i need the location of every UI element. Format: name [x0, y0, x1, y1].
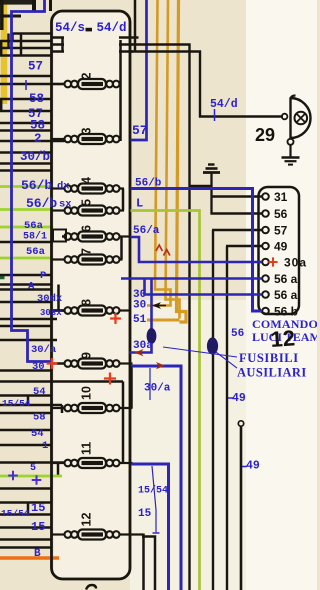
bus jog fuse8 feed [57, 285, 60, 311]
blue wire 56b drop to terminal [253, 187, 263, 311]
blue wire 57 from top to fuse3 [131, 0, 147, 140]
red arrow up orange 2 [164, 250, 170, 256]
bus edge vertical ticks [0, 41, 2, 56]
red arrow on blue 30/a wire [156, 362, 165, 369]
svg-text:30a: 30a [284, 256, 307, 270]
terminal 56 pin [262, 210, 269, 217]
svg-text:30/b: 30/b [20, 150, 50, 164]
bus wire row y=488.5 [0, 487, 52, 490]
svg-text:3: 3 [80, 128, 94, 135]
svg-text:7: 7 [80, 248, 94, 255]
bus wire row y=289.5 [0, 288, 52, 291]
short wire y16 top-left [0, 15, 21, 18]
blue wire 56a lower branch [145, 279, 263, 295]
wire to terminal 31 [211, 195, 263, 197]
bus wire row y=84 [0, 83, 65, 86]
svg-text:8: 8 [80, 299, 94, 306]
bus jog 15/54 upper [27, 396, 30, 406]
orange wire O1 [147, 0, 171, 306]
fusebox outline [52, 11, 131, 579]
bus jog fuse10 bracket [61, 405, 64, 413]
orange wire B row bottom left [0, 556, 59, 559]
svg-text:15/54: 15/54 [2, 398, 31, 409]
bus wire row y=163.5 [0, 162, 52, 165]
blue wire 56/a fuse6 to 30a terminal [131, 237, 263, 262]
fusebox rail fuse10-11 [122, 408, 125, 463]
blue wire below aux fuse 1 [130, 343, 152, 353]
ground symbol above 56 wire [203, 165, 220, 215]
svg-text:11: 11 [80, 442, 94, 455]
fuse 1 label bar [86, 28, 93, 32]
wire V1 from top bus to bottom [129, 45, 190, 590]
svg-text:L: L [136, 197, 143, 211]
bus jog fuse11 bracket [57, 463, 60, 477]
svg-text:9: 9 [80, 352, 94, 359]
terminal 57 pin [262, 227, 269, 234]
bus wire row y=319 [0, 318, 57, 321]
lamp unit 29 [282, 96, 311, 165]
svg-text:56/b: 56/b [21, 178, 52, 193]
svg-text:56a: 56a [26, 246, 46, 258]
label tick 58 upper [25, 80, 27, 90]
fuse F10 [52, 386, 133, 413]
teal stub left edge [0, 275, 5, 280]
green wire 56a second row [0, 257, 53, 260]
svg-text:A: A [28, 281, 35, 293]
wire from fuse12 down left [142, 534, 145, 590]
svg-text:2: 2 [34, 132, 42, 146]
bus wire row y=170.5 [0, 169, 52, 172]
green wire 56/b sx row [0, 208, 53, 211]
svg-text:4: 4 [80, 177, 94, 184]
svg-text:49: 49 [232, 392, 246, 405]
fuse F3 [52, 128, 122, 145]
svg-text:P: P [40, 270, 46, 282]
bus wire row y=152.5 [0, 151, 52, 154]
svg-text:6: 6 [80, 225, 94, 232]
black stub above fusebox corner [49, 0, 52, 11]
red plus fuse9 left [47, 358, 58, 369]
black arrow on orange wire [152, 302, 161, 309]
wire 57 net vertical [212, 230, 214, 590]
wire 49 lower with terminal circle [238, 421, 243, 426]
svg-text:15/54: 15/54 [138, 485, 168, 497]
blue wire 15 from fuse11 [132, 464, 169, 590]
bus wire row y=130.5 [0, 129, 52, 132]
bus jog vertical top group [20, 34, 23, 56]
svg-text:57: 57 [28, 60, 43, 74]
svg-text:12: 12 [80, 513, 94, 527]
bus wire row y=275 [0, 274, 52, 277]
blue leader 30/a label [149, 368, 151, 400]
fuse F2 [52, 73, 122, 90]
svg-text:29: 29 [255, 125, 275, 145]
bus wire row y=284.5 [0, 283, 52, 286]
svg-text:49: 49 [246, 460, 260, 473]
dark corner vertical top-left [32, 0, 36, 12]
svg-text:54/s: 54/s [55, 21, 85, 35]
bus wire row y=547.5 [0, 546, 52, 549]
wire 49 net vertical [226, 246, 228, 590]
aux fuse oval 2 [207, 337, 218, 354]
left edge vertical mark [0, 0, 4, 30]
bus wire row y=381.5 [0, 380, 123, 383]
blue wire 56/b horizontal [131, 187, 255, 190]
red plus 51 row [110, 313, 121, 324]
svg-text:FUSIBILI: FUSIBILI [239, 351, 299, 365]
orange wire O3 [177, 0, 187, 322]
bus wire row y=527.5 [0, 526, 52, 529]
svg-text:30: 30 [133, 300, 146, 312]
red arrow up orange 1 [156, 245, 162, 251]
orange wire 51 to fuse link [147, 319, 180, 322]
bus jog x8.5 [7, 34, 10, 49]
violet plus green row left [8, 471, 18, 481]
wire 54/d to lamp 29 [129, 52, 283, 117]
blue wire aux fuse feed [150, 279, 153, 330]
svg-text:2: 2 [80, 73, 94, 80]
wire to terminal 56 [211, 212, 263, 214]
terminal 56b pin [262, 308, 269, 315]
svg-text:30: 30 [32, 361, 45, 373]
svg-text:56: 56 [231, 328, 244, 340]
fuse F11 [52, 442, 133, 468]
svg-text:56a: 56a [24, 220, 44, 232]
svg-text:1: 1 [42, 440, 48, 452]
svg-text:5: 5 [80, 199, 94, 206]
svg-text:56: 56 [274, 207, 288, 221]
bus wire row y=33.5 [13, 32, 52, 35]
svg-text:56 a: 56 a [274, 288, 298, 302]
fuse F8 [65, 299, 131, 316]
svg-text:30dx: 30dx [37, 293, 63, 305]
green wire L net long vertical [131, 211, 200, 590]
fuse F12 [52, 513, 144, 540]
bus wire row y=405 [0, 404, 62, 407]
dark corner bar top-left [0, 0, 36, 5]
bus wire row y=48 [0, 47, 52, 50]
svg-text:56/b: 56/b [26, 196, 57, 211]
top bus stubs right of box [119, 36, 139, 39]
bus wire row y=430 [0, 429, 52, 432]
blue wire 30/a from fuse9 [132, 366, 182, 590]
svg-text:30sx: 30sx [40, 308, 62, 318]
svg-text:56/b: 56/b [135, 178, 162, 190]
bus wire row y=340 [0, 339, 57, 342]
bus wire row y=413 [0, 412, 52, 415]
orange wire O2 [166, 0, 180, 319]
fuse F5 [52, 199, 125, 216]
svg-text:49: 49 [274, 240, 288, 254]
bus wire row y=514.5 [0, 513, 52, 516]
svg-text:56/a: 56/a [133, 225, 160, 237]
bus jog 15/54 lower [27, 503, 30, 515]
svg-text:58: 58 [30, 119, 45, 133]
svg-text:sx: sx [59, 199, 72, 211]
bus wire row y=462.5 [0, 461, 65, 464]
fusebox rail fuse6-7 [120, 237, 123, 260]
svg-text:AUSILIARI: AUSILIARI [237, 366, 307, 380]
fusebox rail fuse4-5 [122, 189, 125, 211]
terminal 30a pin [262, 259, 269, 266]
pin label 30a with red plus [268, 257, 277, 266]
blue leader 15 label [152, 466, 156, 533]
bus wire row y=76 [0, 75, 52, 78]
connector block 12 outline [259, 187, 300, 314]
blue wire 56a upper [121, 277, 262, 280]
wire from fuse12 down right [142, 537, 155, 590]
svg-text:30a: 30a [133, 340, 153, 352]
bus wire row y=395.5 [0, 394, 52, 397]
bus wire row y=302 [0, 301, 52, 304]
bus wire row y=370.5 [0, 369, 52, 372]
green wire 56a row [0, 226, 53, 229]
bus wire row y=99 [0, 98, 52, 101]
svg-text:15/54: 15/54 [1, 508, 30, 519]
fuse6 left square terminal [53, 230, 66, 242]
terminal 56a pin [262, 291, 269, 298]
fuse F7 [52, 248, 123, 265]
svg-text:15: 15 [31, 501, 45, 515]
bus wire row y=242 [0, 241, 52, 244]
terminal 49 pin [262, 243, 269, 250]
bus wire row y=141 [0, 140, 65, 143]
fuse6 left stub [62, 235, 65, 238]
fuse F9 [65, 352, 133, 369]
svg-text:B: B [34, 548, 41, 560]
leader line fusibili to oval1 [163, 347, 237, 357]
wire to terminal 49 [226, 245, 262, 247]
label tick 54/d [214, 109, 216, 121]
blue feed wire from top [12, 0, 53, 362]
svg-text:57: 57 [274, 224, 288, 238]
violet plus green row right [32, 475, 42, 485]
label tick 49 lower [242, 466, 247, 468]
fuse8 left stub circles connect [53, 309, 65, 312]
svg-text:15: 15 [31, 520, 45, 534]
red plus below fuse9 [104, 373, 116, 385]
red arrow on blue 352 wire [135, 349, 144, 356]
green wire 56/b dx row [0, 185, 53, 188]
svg-text:51: 51 [133, 314, 147, 326]
fuse F6 [65, 225, 131, 242]
svg-text:31: 31 [274, 190, 288, 204]
partial label below fusebox [86, 585, 96, 590]
svg-text:56 a: 56 a [274, 272, 298, 286]
aux fuse oval 1 [147, 328, 157, 344]
label tick 49 upper [228, 397, 234, 399]
svg-text:12: 12 [270, 325, 296, 352]
svg-text:5: 5 [30, 463, 36, 474]
svg-text:54: 54 [33, 386, 46, 398]
bus wire row y=123 [0, 122, 52, 125]
top bus stubs inside box [52, 36, 65, 39]
bus wire row y=539.5 [0, 538, 52, 541]
green wire 15 green row [0, 475, 62, 478]
riser to page top right of box [134, 0, 137, 52]
bus wire row y=41 [0, 40, 52, 43]
terminal 31 pin [262, 193, 269, 200]
svg-text:58/1: 58/1 [23, 231, 47, 243]
wire to terminal 57 [212, 229, 262, 231]
svg-text:dx: dx [57, 181, 70, 193]
bus wire row y=111 [0, 110, 52, 113]
svg-text:10: 10 [80, 386, 94, 400]
fusebox inner rail top [119, 40, 122, 141]
svg-text:57: 57 [132, 123, 148, 138]
svg-text:54/d: 54/d [97, 21, 127, 35]
yellow supply stripe left edge [1, 0, 8, 104]
fuse9 left stub [53, 362, 65, 365]
bus wire row y=445 [0, 444, 52, 447]
wire bracket ground to terminals 31 56 [190, 185, 212, 187]
fuse F4 [52, 177, 125, 194]
terminal 56a pin [262, 275, 269, 282]
svg-text:15: 15 [138, 508, 152, 520]
bus wire row y=502.5 [0, 501, 52, 504]
svg-text:54: 54 [31, 428, 44, 440]
bus wire row y=55.5 [0, 54, 52, 57]
svg-text:30/a: 30/a [144, 383, 171, 395]
svg-text:30/a: 30/a [31, 344, 57, 356]
svg-text:58: 58 [29, 92, 44, 106]
leader line fusibili to oval2 [216, 352, 237, 368]
bus wire row y=326 [0, 325, 52, 328]
fusebox rail fuse9-10 [130, 366, 133, 408]
svg-text:58: 58 [33, 412, 46, 424]
